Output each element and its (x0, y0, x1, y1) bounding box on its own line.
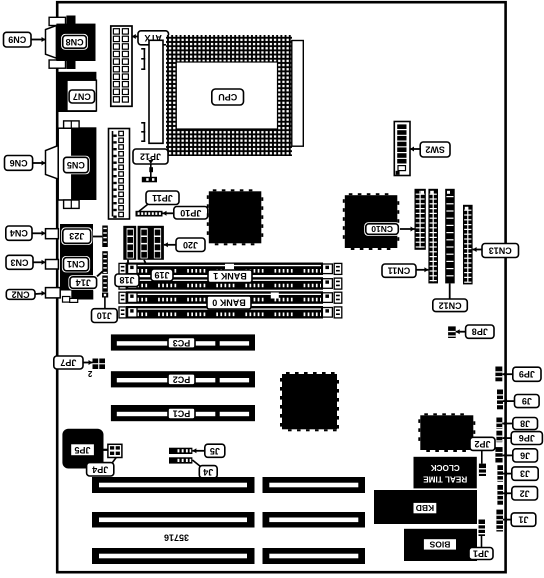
key notch BANK0 (271, 293, 279, 299)
chip U1 (207, 189, 263, 245)
PCI slot PC3 (111, 334, 255, 350)
svg-text:J5: J5 (210, 446, 220, 456)
svg-text:J14: J14 (76, 278, 91, 288)
label J14 (68, 275, 98, 290)
label JP8 (466, 325, 494, 338)
chip U4 (418, 413, 475, 452)
label JP11 (146, 191, 179, 205)
connector CN3 stub (46, 260, 59, 270)
svg-text:JP9: JP9 (519, 369, 535, 379)
ISA slot ISA1 (92, 477, 365, 493)
label CN3 (6, 255, 33, 269)
label PC2 (168, 374, 195, 385)
CPU socket (PGA) (166, 35, 292, 156)
pointer CN10 (398, 227, 414, 232)
connector CN5 (DB25 parallel) (46, 121, 97, 208)
svg-text:J2: J2 (520, 488, 530, 498)
label JP9 (513, 367, 541, 381)
jumper J10 (102, 293, 108, 298)
svg-text:PC2: PC2 (173, 374, 191, 384)
jumper J3 jumper (497, 465, 503, 482)
pointer J18 (127, 260, 129, 274)
pointer ATX (132, 34, 138, 39)
svg-text:J18: J18 (119, 275, 134, 285)
connector CN8 (DB9 serial) (46, 16, 96, 70)
pointer JP2 (481, 450, 483, 463)
jumper JP9 jumper (495, 367, 502, 382)
label SW2 (420, 142, 450, 157)
jumper JP8 jumper (448, 326, 456, 338)
svg-text:CN2: CN2 (12, 289, 30, 299)
svg-text:JP4: JP4 (92, 464, 108, 474)
label BANK 0 (207, 296, 251, 309)
REAL TIME CLOCK module (414, 457, 477, 489)
ISA slot ISA2 (92, 512, 365, 528)
pointer JP6 (502, 436, 511, 441)
pointer CN6 (33, 161, 46, 166)
pointer CN13 (473, 247, 482, 252)
jumper JP6 jumper (496, 431, 502, 443)
label J10 (92, 309, 118, 323)
connector CN11 (428, 189, 438, 284)
label J8 (513, 418, 538, 430)
jumper JP1 jumper (479, 520, 486, 537)
memory socket bar BANK1 upper (119, 263, 342, 276)
svg-text:CN13: CN13 (489, 246, 512, 256)
label J6 (513, 449, 538, 462)
svg-text:J9: J9 (522, 396, 532, 406)
pointer CN9 (31, 37, 46, 42)
connector strip at JP12 (149, 40, 163, 143)
svg-text:CN1: CN1 (67, 259, 85, 269)
svg-text:CN5: CN5 (67, 160, 85, 170)
pointer J6 (503, 453, 513, 458)
svg-text:PC3: PC3 (173, 338, 191, 348)
label CN5 (62, 156, 90, 175)
svg-text:JP1: JP1 (473, 549, 489, 559)
svg-text:BIOS: BIOS (429, 539, 450, 549)
svg-text:J19: J19 (154, 270, 169, 280)
svg-text:CN12: CN12 (439, 300, 462, 310)
pointer JP1 (481, 536, 483, 549)
svg-text:J8: J8 (520, 419, 530, 429)
pointer JP11 (139, 205, 148, 212)
label JP10 (174, 207, 208, 220)
jumper J6 jumper (495, 447, 502, 462)
jumper grid JP4 (108, 444, 122, 457)
svg-text:J4: J4 (203, 467, 213, 477)
connector CN7 (57, 72, 96, 112)
pointer JP9 (502, 372, 513, 377)
pointer J4 (192, 460, 200, 467)
jumper JP2 jumper (479, 464, 486, 476)
svg-text:JP6: JP6 (519, 433, 535, 443)
jumper strip J5 (169, 448, 192, 454)
label J19 (151, 269, 173, 281)
label CN6 (5, 156, 33, 171)
label J18 (115, 274, 139, 287)
pointer J14 (97, 271, 103, 277)
pointer J20 (164, 242, 176, 247)
jumper JP12 (142, 177, 157, 183)
label J23 (61, 227, 92, 245)
connector CN12 (445, 189, 455, 284)
chip U2 (343, 193, 400, 250)
memory socket bar BANK1 lower (119, 277, 342, 290)
key notch BANK1 (225, 264, 234, 270)
connector CN13 (463, 205, 473, 285)
svg-text:CN9: CN9 (8, 35, 26, 45)
label CN1 (62, 256, 90, 272)
svg-text:CN11: CN11 (388, 266, 411, 276)
pointer J2 (503, 491, 512, 496)
svg-text:JP10: JP10 (180, 208, 201, 218)
pointer J5 (192, 448, 204, 453)
pointer J23 (91, 236, 103, 238)
svg-text:J3: J3 (520, 469, 530, 479)
svg-text:CN3: CN3 (10, 257, 28, 267)
pointer CN12 (449, 283, 451, 299)
label J4 (199, 466, 217, 478)
svg-text:BANK 0: BANK 0 (212, 298, 246, 308)
pointer J1 (503, 517, 511, 522)
jumper J2 jumper (497, 485, 503, 505)
label CN12 (433, 299, 468, 312)
pointer SW2 (410, 147, 420, 152)
jumper row JP10/JP11 (136, 211, 163, 217)
pointer CN3 (33, 260, 46, 265)
svg-text:CLOCK: CLOCK (431, 463, 460, 472)
label CN13 (482, 244, 519, 258)
header block J19/J20 (138, 226, 164, 260)
svg-text:CN7: CN7 (73, 92, 91, 102)
pointer CN11 (416, 267, 428, 272)
DIP switch SW2 (394, 122, 410, 176)
connector CN2 stub (46, 288, 61, 298)
pin strip J14 pins (102, 276, 108, 292)
label J20 (176, 238, 205, 252)
label CPU (212, 89, 244, 105)
svg-text:REAL TIME: REAL TIME (423, 474, 468, 483)
component JP5 (black block) (62, 429, 103, 469)
chip U3 (280, 372, 339, 431)
label JP1 (469, 548, 493, 560)
label J3 (512, 467, 538, 480)
jumper strip J4 (169, 457, 192, 463)
pointer J9 (503, 399, 515, 404)
svg-text:BANK 1: BANK 1 (213, 271, 247, 281)
svg-text:J6: J6 (520, 450, 530, 460)
label J5 (205, 444, 225, 457)
connector ATX power (111, 26, 132, 106)
svg-text:CN8: CN8 (66, 37, 84, 47)
pin strip CN1 pins (102, 251, 108, 274)
jumper block JP7 (93, 359, 106, 370)
label CN2 (6, 289, 35, 299)
label ATX (138, 31, 169, 45)
KBD controller chip (374, 490, 477, 524)
label CN10 (364, 222, 400, 236)
label JP7 (54, 356, 83, 369)
connector (pin header below ATX) (109, 129, 130, 220)
svg-text:CPU: CPU (218, 92, 237, 102)
label J9 (515, 395, 540, 408)
svg-text:JP2: JP2 (474, 439, 490, 449)
svg-text:SW2: SW2 (425, 145, 445, 155)
svg-text:CN4: CN4 (10, 228, 28, 238)
svg-text:PC1: PC1 (173, 409, 191, 419)
svg-text:J20: J20 (183, 240, 198, 250)
pointer J8 (502, 421, 513, 426)
label JP2 (470, 437, 495, 450)
PCI slot PC2 (111, 371, 255, 387)
PCI slot PC1 (111, 405, 255, 421)
label PC1 (168, 408, 195, 419)
label CN7 (69, 90, 94, 103)
svg-text:J10: J10 (97, 311, 112, 321)
label CN9 (4, 32, 32, 47)
CPU socket lever bar (292, 41, 304, 147)
label PC3 (168, 337, 195, 348)
pointer CN4 (32, 231, 46, 236)
svg-text:JP8: JP8 (472, 327, 488, 337)
svg-text:CN6: CN6 (10, 158, 28, 168)
memory socket bar BANK0 upper (119, 291, 342, 304)
label JP12 (133, 149, 168, 164)
pointer J10 (104, 298, 106, 309)
label JP6 (511, 432, 542, 445)
svg-text:CN10: CN10 (371, 224, 393, 234)
svg-text:KBD: KBD (416, 503, 434, 513)
label CN8 (61, 34, 88, 50)
svg-text:JP5: JP5 (74, 445, 90, 455)
pointer CN2 (35, 291, 46, 296)
svg-text:JP11: JP11 (152, 193, 173, 203)
label J2 (512, 487, 538, 500)
ISA slot ISA3 (92, 548, 365, 564)
memory socket bar BANK0 lower (119, 306, 342, 319)
pointer JP10 (163, 211, 174, 216)
header block J18 (123, 226, 136, 260)
jumper J1 jumper (496, 510, 503, 532)
pointer JP5 (95, 449, 108, 451)
pointer JP7 (83, 360, 93, 365)
pointer J19 (144, 260, 149, 270)
jumper J8 jumper (496, 418, 502, 430)
label CN4 (6, 226, 32, 240)
bracket upper left of JP12 strip (141, 48, 145, 70)
BIOS chip (404, 529, 477, 561)
label CN11 (382, 264, 416, 277)
label BANK 1 (208, 270, 252, 283)
svg-text:J1: J1 (518, 515, 528, 525)
svg-text:2: 2 (87, 369, 92, 378)
svg-text:35716: 35716 (164, 533, 189, 543)
pointer J3 (503, 471, 512, 476)
connector CN4 stub (46, 229, 59, 239)
pointer JP4 (112, 458, 116, 463)
bracket lower left of JP12 strip (141, 122, 145, 142)
svg-text:J23: J23 (69, 231, 84, 241)
pointer JP8 (456, 329, 466, 334)
label JP5 (70, 444, 94, 457)
jumper J9 jumper (497, 390, 503, 410)
label J1 (511, 513, 536, 526)
pin strip J23 pins (102, 226, 108, 248)
connector block J23/CN1/J14 (60, 224, 93, 302)
label JP4 (87, 463, 114, 476)
pointer JP12 (148, 160, 153, 177)
svg-text:JP7: JP7 (60, 358, 76, 368)
connector CN10 (415, 189, 426, 250)
